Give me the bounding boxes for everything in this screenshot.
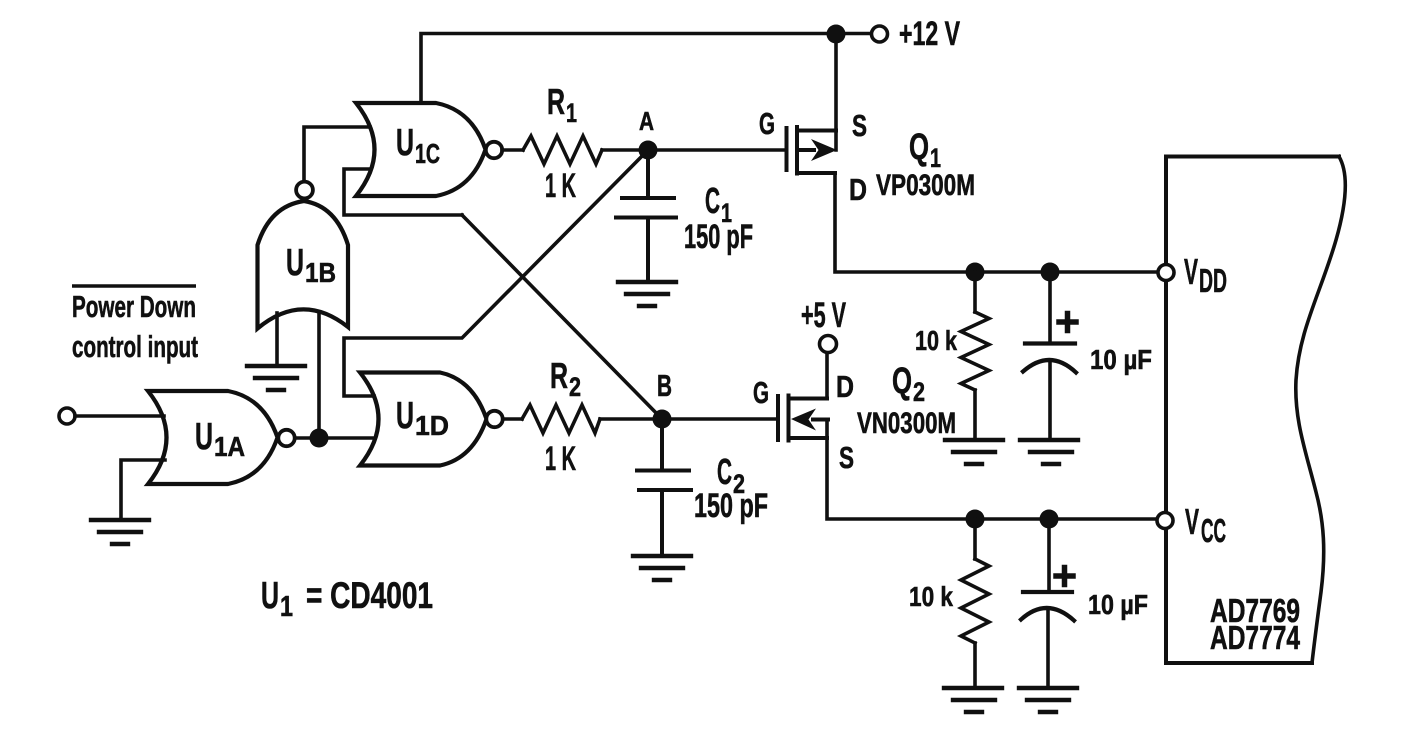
svg-text:1D: 1D (415, 410, 449, 441)
wire Q1 source to +12V rail (834, 34, 838, 150)
wire R1 to Q1 gate (602, 148, 785, 152)
gate U1D (NOR) (360, 373, 487, 466)
svg-text:U: U (195, 416, 213, 458)
capacitor 10uF lower plates (1021, 592, 1074, 621)
svg-text:1: 1 (566, 98, 577, 128)
svg-text:U: U (396, 395, 414, 437)
wire diagonal node to B (462, 215, 662, 419)
svg-text:G: G (753, 375, 769, 410)
svg-text:10 k: 10 k (909, 581, 953, 612)
wire lower 10uF bottom (1046, 608, 1050, 687)
ground upper 10uF (1020, 440, 1078, 464)
capacitor C2 (637, 419, 691, 556)
svg-text:D: D (836, 369, 854, 404)
wire Q2 source to VCC row (827, 420, 1158, 520)
wire U1C output to R1 (502, 148, 523, 152)
svg-text:A: A (639, 106, 654, 136)
ground U1A (91, 520, 149, 544)
wire lower 10uF top (1047, 519, 1051, 590)
resistor 10k upper zigzag (961, 312, 989, 390)
junction dot U1A/U1B/U1D net (310, 429, 329, 448)
svg-text:V: V (1184, 251, 1198, 292)
svg-text:1 K: 1 K (545, 167, 576, 205)
wire R2 to Q2 gate (600, 417, 777, 421)
svg-text:= CD4001: = CD4001 (306, 575, 433, 616)
svg-text:10 µF: 10 µF (1088, 589, 1148, 620)
transistor Q2 (VN0300M n-MOSFET) (778, 396, 828, 441)
wire U1C upper input from U1B output (304, 127, 370, 180)
resistor 10k lower zigzag (961, 559, 989, 643)
resistor R1 zigzag (523, 136, 602, 164)
svg-text:VN0300M: VN0300M (857, 407, 956, 440)
wire upper 10uF top (1048, 272, 1052, 341)
svg-text:Q: Q (892, 360, 912, 401)
ground upper 10k (945, 440, 1003, 464)
junction dot VCC row / 10k (966, 510, 985, 529)
svg-text:Power Down: Power Down (72, 289, 196, 324)
gate U1B (NOR, pointing up) (258, 201, 349, 329)
capacitor C1 (616, 150, 676, 282)
op-gate U1C (NOR) (356, 103, 486, 196)
IC block AD7769/AD7774 outline (1166, 157, 1339, 664)
svg-text:1: 1 (280, 591, 293, 623)
svg-text:1B: 1B (305, 257, 336, 288)
junction dot VCC row / 10uF (1040, 510, 1059, 529)
svg-text:S: S (852, 108, 867, 143)
svg-text:U: U (261, 575, 279, 617)
terminal Power Down input (59, 408, 75, 424)
ground lower 10k (944, 688, 1002, 712)
gate U1A (NOR) (148, 391, 278, 484)
arrow Q2 (791, 409, 816, 431)
svg-text:U: U (396, 122, 414, 164)
svg-text:VP0300M: VP0300M (876, 169, 975, 202)
ground C2 (633, 556, 691, 580)
transistor Q1 (VP0300M p-MOSFET) (787, 127, 837, 174)
junction dot on +12V rail (827, 25, 846, 44)
wire input terminal to U1A (75, 414, 164, 418)
svg-text:R: R (547, 81, 565, 122)
pin VCC terminal (1157, 513, 1173, 529)
overline Power Down (72, 284, 196, 288)
wire lower 10k bottom (973, 643, 977, 687)
junction dot VDD row / 10k (966, 263, 985, 282)
svg-text:D: D (849, 172, 867, 207)
wire U1A output to U1D input (295, 436, 372, 440)
svg-text:1C: 1C (415, 138, 440, 169)
svg-text:1 K: 1 K (545, 440, 576, 478)
bubble U1B output (296, 182, 313, 199)
svg-text:control input: control input (72, 329, 198, 364)
svg-text:10 k: 10 k (915, 325, 957, 356)
wire U1B left input to ground (275, 313, 279, 366)
wire +12V top rail (421, 34, 872, 104)
svg-text:+5 V: +5 V (801, 296, 846, 335)
pin VDD terminal (1158, 265, 1174, 281)
wire Q1 drain to VDD row (835, 173, 1158, 272)
svg-text:+12 V: +12 V (899, 15, 960, 53)
wire upper 10k top (973, 272, 977, 312)
wire lower 10k top (973, 519, 977, 559)
terminal +12V (872, 26, 888, 42)
svg-text:150 pF: 150 pF (694, 487, 768, 525)
wire U1C lower input hook to diagonal (344, 169, 462, 215)
svg-text:10 µF: 10 µF (1090, 344, 1152, 375)
svg-text:S: S (839, 440, 854, 475)
arrow Q1 (811, 139, 837, 161)
resistor R2 zigzag (522, 405, 600, 433)
wire U1B right input down to U1A output net (317, 312, 321, 438)
junction dot VDD row / 10uF (1041, 263, 1060, 282)
plus sign upper 10uF (1059, 314, 1076, 331)
svg-text:2: 2 (913, 377, 925, 407)
node B dot (653, 410, 672, 429)
svg-text:U: U (286, 242, 304, 284)
svg-text:AD7774: AD7774 (1210, 619, 1300, 656)
svg-text:V: V (1185, 501, 1199, 542)
svg-text:B: B (657, 368, 672, 403)
node A dot (639, 141, 658, 160)
wire U1A lower input to ground (121, 460, 165, 519)
bubble U1A output (278, 430, 294, 446)
wire diagonal from node A (344, 150, 648, 396)
wire upper 10uF bottom (1048, 360, 1052, 439)
svg-text:CC: CC (1201, 512, 1226, 549)
svg-text:C: C (717, 451, 732, 492)
wire U1D output to R2 (503, 417, 522, 421)
capacitor 10uF upper plates (1023, 344, 1076, 373)
ground lower 10uF (1019, 688, 1077, 712)
wire upper 10k bottom (973, 390, 977, 439)
wire Q2 drain to +5V terminal (825, 353, 829, 399)
ground C1 (618, 282, 676, 306)
svg-text:2: 2 (569, 372, 581, 402)
bubble U1C output (486, 142, 502, 158)
ground U1B (247, 366, 305, 390)
svg-text:G: G (759, 106, 775, 141)
terminal +5V (820, 336, 837, 353)
svg-text:1A: 1A (214, 431, 245, 462)
svg-text:R: R (550, 355, 568, 396)
svg-text:DD: DD (1199, 262, 1227, 299)
IC block wavy right edge (1296, 157, 1346, 664)
svg-text:Q: Q (909, 126, 929, 167)
svg-text:150 pF: 150 pF (684, 218, 753, 256)
plus sign lower 10uF (1056, 568, 1073, 585)
bubble U1D output (486, 411, 502, 427)
svg-text:C: C (705, 180, 720, 221)
